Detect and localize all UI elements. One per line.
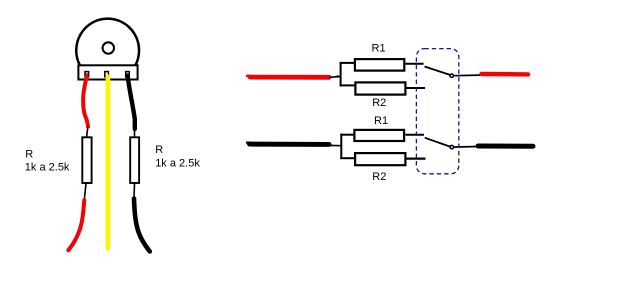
svg-text:R: R — [155, 144, 163, 156]
svg-text:R1: R1 — [374, 115, 388, 127]
svg-text:R: R — [25, 148, 33, 160]
svg-text:R2: R2 — [372, 97, 386, 109]
svg-text:R1: R1 — [372, 43, 386, 55]
svg-text:R2: R2 — [372, 171, 386, 183]
svg-text:1k a 2.5k: 1k a 2.5k — [155, 157, 200, 169]
svg-text:1k a 2.5k: 1k a 2.5k — [25, 162, 70, 174]
